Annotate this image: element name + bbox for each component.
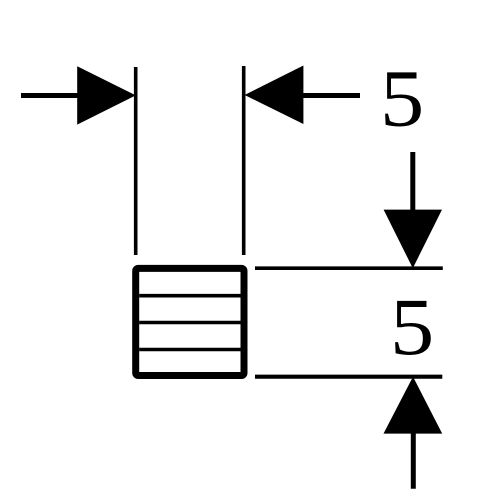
svg-text:5: 5 <box>390 282 434 372</box>
svg-text:5: 5 <box>380 53 424 143</box>
